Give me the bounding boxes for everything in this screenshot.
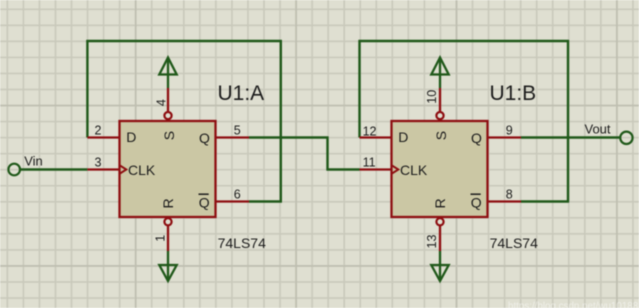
svg-text:Vin: Vin	[24, 154, 43, 169]
wire: U1:A feedback loop right segment (from /Q pin 6)	[280, 40, 282, 203]
U1:B clock input arrow	[392, 165, 399, 174]
svg-text:13: 13	[425, 235, 439, 249]
wire: Q1 to CLK2 vertical jog	[326, 137, 328, 171]
ground terminal (down arrow) below U1:A pin 1	[159, 251, 176, 281]
node Vin: input terminal circle	[8, 164, 20, 176]
U1:B pin 9 stub (Q)	[488, 136, 522, 138]
wire: U1:A feedback loop left segment (to D pin 2)	[86, 40, 88, 138]
wire: Q1 to CLK2 horizontal into pin 11	[327, 168, 360, 170]
wire: Vout output wire from pin 9	[521, 136, 620, 138]
U1:A S active-low bubble	[164, 112, 171, 119]
svg-text:4: 4	[154, 99, 168, 106]
U1:A pin 4 stub (S)	[167, 88, 169, 112]
wire: U1:A feedback loop bottom segment to pin 6	[249, 200, 282, 202]
wire: Vin input wire	[20, 168, 87, 170]
U1:B S active-low bubble	[436, 112, 443, 119]
svg-text:Q: Q	[471, 130, 482, 146]
U1:A pin 6 stub (/Q)	[216, 200, 250, 202]
U1:A clock input arrow	[120, 165, 127, 174]
U1:A R active-low bubble	[164, 218, 171, 225]
flip-flop U1:A (74LS74) body	[120, 121, 216, 217]
power terminal (up arrow) above U1:A pin 4	[159, 58, 176, 89]
svg-text:R: R	[160, 198, 176, 208]
svg-text:3: 3	[95, 155, 102, 169]
U1:B pin 13 stub (R)	[439, 225, 441, 251]
U1:B pin 12 stub (D)	[360, 136, 392, 138]
flip-flop U1:B (74LS74) body	[392, 121, 488, 217]
wire: U1:B feedback loop top segment	[359, 40, 570, 42]
U1:B label /Q	[471, 194, 482, 210]
wire: Q1 to CLK2 horizontal from pin 5	[249, 136, 329, 138]
U1:B pin 8 stub (/Q)	[488, 200, 522, 202]
wire: U1:B feedback loop right segment (from /Q pin 8)	[567, 40, 569, 203]
U1:B pin 10 stub (S)	[439, 88, 441, 112]
ground terminal (down arrow) below U1:B pin 13	[431, 251, 448, 281]
svg-text:Q: Q	[199, 130, 210, 146]
svg-text:74LS74: 74LS74	[490, 235, 538, 251]
svg-text:2: 2	[95, 124, 102, 138]
svg-text:U1:A: U1:A	[218, 82, 265, 105]
svg-text:Vout: Vout	[585, 122, 611, 137]
wire: U1:B feedback loop bottom segment to pin 8	[521, 200, 569, 202]
svg-text:S: S	[161, 131, 177, 140]
svg-text:1: 1	[154, 235, 168, 242]
U1:A pin 1 stub (R)	[167, 225, 169, 251]
svg-text:9: 9	[506, 124, 513, 138]
U1:A label /Q	[199, 194, 210, 210]
U1:A pin 3 stub (CLK)	[87, 168, 119, 170]
svg-text:R: R	[432, 198, 448, 208]
svg-text:https://blog.csdn.net/wu10188: https://blog.csdn.net/wu10188	[508, 301, 639, 308]
U1:A pin 5 stub (Q)	[216, 136, 250, 138]
U1:A pin 2 stub (D)	[87, 136, 119, 138]
svg-text:D: D	[126, 129, 136, 145]
svg-text:74LS74: 74LS74	[218, 235, 266, 251]
U1:B pin 11 stub (CLK)	[360, 168, 392, 170]
power terminal (up arrow) above U1:B pin 10	[431, 58, 448, 89]
wire: U1:A feedback loop top segment	[86, 40, 281, 42]
svg-text:U1:B: U1:B	[490, 82, 537, 105]
svg-text:Q: Q	[199, 194, 210, 210]
svg-text:Q: Q	[471, 194, 482, 210]
node Vout: output terminal circle	[620, 132, 632, 144]
svg-text:5: 5	[234, 124, 241, 138]
wire: U1:B feedback loop left segment (to D pin 12)	[358, 40, 360, 138]
svg-text:11: 11	[363, 155, 376, 169]
svg-text:CLK: CLK	[128, 162, 156, 178]
U1:B R active-low bubble	[436, 218, 443, 225]
svg-text:S: S	[433, 131, 449, 140]
svg-text:10: 10	[425, 90, 439, 104]
svg-text:6: 6	[234, 188, 241, 202]
svg-text:8: 8	[506, 188, 513, 202]
svg-text:D: D	[398, 129, 408, 145]
svg-text:CLK: CLK	[400, 162, 428, 178]
svg-text:12: 12	[363, 125, 377, 139]
